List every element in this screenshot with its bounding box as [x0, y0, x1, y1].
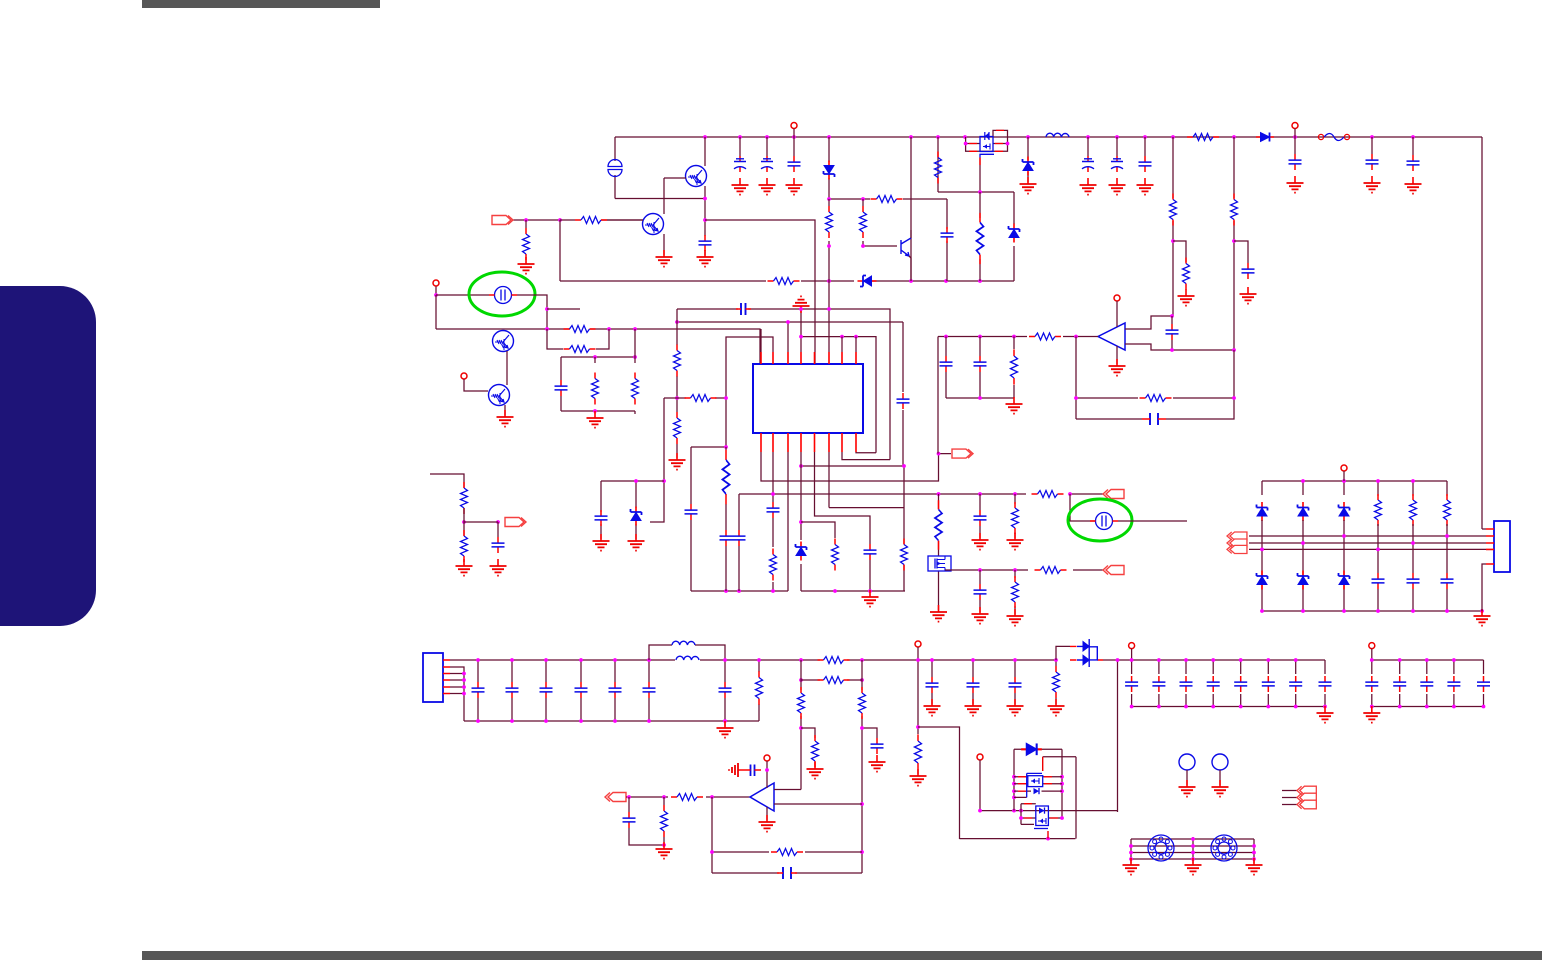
- capacitor C33: [540, 682, 553, 698]
- wire bank1 col 5: [1240, 660, 1242, 707]
- junctions rail y591 right: [833, 589, 872, 593]
- capacitor C58 series: [751, 765, 755, 777]
- wire D2 leads: [1027, 137, 1029, 182]
- thermal fuse F2: [489, 287, 517, 304]
- resistor R20: [901, 539, 908, 571]
- wire opto2 link: [1070, 494, 1096, 521]
- ground R43: [910, 769, 927, 786]
- ground C2: [732, 178, 749, 195]
- junctions U2 fb: [1074, 396, 1236, 400]
- wire pin5 down rail y516: [815, 452, 871, 591]
- ground C11: [1405, 177, 1422, 194]
- capacitor C31: [472, 682, 485, 698]
- ground D2: [1020, 177, 1037, 194]
- wire R7 to Q2: [560, 219, 643, 221]
- left navigation tab: [0, 286, 96, 626]
- resistor R35: [1410, 494, 1417, 526]
- wire Q4 collector emitter: [909, 230, 911, 281]
- wire cluster rail y811: [980, 810, 1118, 812]
- wire rail y336: [801, 337, 876, 453]
- wire C10 top: [1371, 137, 1373, 154]
- mosfet Q7 box: [928, 556, 951, 571]
- diode Q8 body: [1034, 788, 1040, 794]
- wire P3 drop: [435, 287, 437, 296]
- resistor R11: [860, 206, 867, 238]
- resistor R23: [723, 450, 730, 504]
- wire rail y447: [691, 447, 726, 591]
- wire R-snub drop: [937, 137, 939, 192]
- wire col x932: [931, 660, 933, 704]
- resistor R4: [1187, 134, 1219, 141]
- zener D10 top: [1339, 502, 1350, 521]
- power node P1: [791, 123, 797, 129]
- wire x436 drop: [435, 295, 437, 329]
- ground jack mid: [1185, 858, 1202, 875]
- mosfet Q3 gate lead: [980, 154, 994, 157]
- junction cluster y839: [1046, 837, 1050, 841]
- junctions on VCC bus: [703, 135, 1415, 139]
- capacitor C6: [1111, 156, 1123, 172]
- ground Q7: [930, 605, 947, 622]
- connector J5 arrow: [1103, 566, 1124, 575]
- ground R30: [1007, 609, 1024, 626]
- ground RC block: [587, 411, 604, 428]
- resistor R14: [564, 346, 596, 353]
- wire cap col x581: [580, 660, 582, 721]
- ground C7: [1137, 178, 1154, 195]
- wire U3 fb cap rail: [712, 872, 862, 874]
- transistor Q2: [643, 214, 664, 235]
- transistor Q6: [489, 385, 510, 406]
- jack socket K2: [1211, 835, 1237, 861]
- wire U2 ground: [1116, 346, 1118, 364]
- wire pin3 down: [787, 452, 789, 591]
- zener D12 bottom: [1298, 571, 1309, 590]
- ground U2: [1109, 359, 1126, 376]
- wire branch to C8: [1234, 241, 1248, 263]
- power node P11: [977, 754, 983, 760]
- wire bus left drop: [614, 137, 616, 199]
- wire U2 cap legs: [946, 337, 1014, 399]
- junctions rail y199: [827, 197, 865, 201]
- wire Q1 emitter to node: [704, 186, 706, 255]
- capacitor C41: [1009, 677, 1022, 693]
- junctions rail y570: [978, 568, 1017, 572]
- wire x918 branch: [918, 727, 960, 839]
- capacitor C14 series: [741, 303, 746, 315]
- resistor R42: [859, 687, 866, 719]
- junctions rail y721 caps: [476, 719, 651, 723]
- wire C5 top: [1087, 137, 1089, 156]
- connector CN1 pins: [443, 660, 450, 694]
- power node P8: [1129, 643, 1135, 649]
- junctions fet1 pins: [1012, 775, 1064, 799]
- resistor R34: [1375, 494, 1382, 526]
- lamp LED1: [1179, 754, 1195, 770]
- wire C57 legs: [629, 797, 664, 845]
- wire LED2 lead: [1219, 770, 1221, 785]
- wire Q1 collector: [704, 137, 706, 166]
- connector CN2 3pin: [1227, 532, 1247, 554]
- zener D9 top: [1298, 502, 1309, 521]
- resistor R16: [632, 373, 639, 405]
- wire R6 top: [525, 220, 527, 228]
- connector J2 arrow: [952, 449, 973, 458]
- resistor R24: [1032, 491, 1064, 498]
- capacitor C59 series: [783, 867, 791, 879]
- wire gate rail: [938, 191, 1014, 193]
- capacitor C35: [609, 682, 622, 698]
- resistor R9: [871, 196, 903, 203]
- wire C4 top: [793, 137, 795, 156]
- wire pin4 up: [800, 309, 802, 352]
- wire jack lines: [1131, 839, 1254, 859]
- capacitor C57: [623, 812, 636, 828]
- wire U2 power: [1116, 301, 1118, 327]
- capacitor C22: [974, 510, 987, 526]
- wire rail y466: [801, 465, 904, 467]
- wire Q2 emitter: [663, 234, 665, 255]
- wire x739 chain: [738, 494, 740, 591]
- inductor L1: [1046, 133, 1069, 137]
- zener D7: [631, 507, 642, 526]
- ground C22: [972, 533, 989, 550]
- capacitor C16: [864, 544, 877, 560]
- capacitor C5: [1082, 156, 1094, 172]
- wire x1015 chain2: [1014, 570, 1016, 614]
- suppressor D14: [1070, 646, 1103, 660]
- wire TVS bypass: [1056, 646, 1070, 660]
- wire phase line 2: [1249, 542, 1486, 544]
- wire x725 col: [724, 660, 726, 726]
- capacitor C52: [1420, 676, 1433, 692]
- wire cluster right vert: [1075, 757, 1077, 839]
- wire branch to R3: [1173, 241, 1186, 262]
- resistor R12: [977, 213, 984, 264]
- capacitor C50: [1365, 676, 1378, 692]
- wire J4 links: [464, 508, 498, 537]
- power node P2: [1292, 123, 1298, 129]
- capacitor C34: [575, 682, 588, 698]
- wire pin7 down rail y459: [842, 452, 890, 460]
- capacitor C54: [1477, 676, 1490, 692]
- wire Q2 base: [601, 219, 643, 221]
- resistor R44: [1053, 666, 1060, 698]
- power node P4: [461, 373, 467, 379]
- junction y466: [799, 464, 906, 468]
- wire P8 stub: [1131, 649, 1133, 660]
- junctions x725: [723, 658, 727, 723]
- ground up U1: [793, 296, 810, 313]
- connector J6 arrow: [605, 793, 626, 802]
- resistor R8: [768, 278, 800, 285]
- wire rail y591 right: [801, 590, 905, 592]
- ground C5: [1080, 178, 1097, 195]
- wire zener node rail y199: [829, 198, 947, 200]
- junction U3 gnd node: [662, 843, 666, 847]
- wire feedback rail y281: [560, 280, 1014, 282]
- wire stub y309: [547, 308, 580, 310]
- mosfet Q8 pin rows: [1014, 777, 1062, 798]
- ground C39: [924, 699, 941, 716]
- wire Q3 gate red: [979, 158, 981, 166]
- capacitor C51: [1393, 676, 1406, 692]
- wire primary drop x911: [910, 137, 912, 281]
- resistor R36: [1444, 494, 1451, 526]
- ground LED2: [1212, 780, 1229, 797]
- junction Q1 emitter nodes: [703, 197, 707, 222]
- resistor R17: [674, 345, 681, 377]
- wire CN1 pin bundle: [450, 667, 464, 721]
- wire column x1262: [1261, 520, 1263, 611]
- wire column x1344: [1343, 520, 1345, 611]
- capacitor C60: [685, 504, 698, 520]
- resistor R13: [564, 326, 596, 333]
- capacitor C21: [595, 510, 608, 526]
- resistor R19: [685, 395, 717, 402]
- wire column x1378: [1377, 524, 1379, 611]
- junction x664: [662, 479, 666, 483]
- wire bridge top rail: [1262, 481, 1447, 496]
- wire x677 chain: [676, 309, 678, 458]
- resistor R2: [1170, 194, 1177, 226]
- junctions bridge bottom: [1260, 609, 1484, 613]
- capacitor C1: [699, 235, 712, 251]
- capacitor C24: [940, 356, 953, 372]
- power node P5: [1114, 295, 1120, 301]
- capacitor C30: [1441, 573, 1454, 589]
- wire P2 stub: [1294, 129, 1296, 138]
- capacitor C18: [720, 530, 733, 546]
- bottom footer bar: [142, 951, 1542, 960]
- junction x677: [675, 396, 679, 400]
- ground x725: [717, 721, 734, 738]
- wire rail y322: [677, 321, 903, 323]
- capacitor C37: [719, 682, 732, 698]
- junction U3 fb: [710, 850, 714, 854]
- wire rail y398 L: [664, 397, 726, 399]
- resistor R26: [461, 530, 468, 562]
- jack socket K1: [1148, 835, 1174, 861]
- junction x1056: [1054, 658, 1058, 662]
- wire x1117 drop: [1117, 660, 1119, 812]
- wire cap col x649: [648, 660, 650, 721]
- wire node rail y220: [705, 220, 815, 364]
- wire rail y507: [829, 507, 904, 509]
- wire CN3 pin5 to gnd: [1482, 564, 1486, 611]
- mosfet Q7: [935, 557, 945, 571]
- ground bank2: [1363, 706, 1380, 723]
- capacitor C42: [1125, 676, 1138, 692]
- capacitor C17: [767, 502, 780, 518]
- capacitor C12: [941, 227, 954, 243]
- ground C40: [965, 699, 982, 716]
- wire CN4 stubs: [1282, 791, 1297, 805]
- wire rail y336 U2: [938, 336, 1076, 338]
- wire I1 emitter rail: [615, 198, 705, 200]
- wire bank1 col 7: [1295, 660, 1297, 707]
- junctions fet2 pins: [1019, 816, 1064, 820]
- resistor R47: [771, 849, 803, 856]
- capacitor C49: [1319, 676, 1332, 692]
- capacitor C27 series: [1150, 413, 1158, 425]
- connector J3 arrow: [1103, 490, 1124, 499]
- wire x938 chain: [938, 494, 940, 610]
- wire R41 branch: [801, 728, 815, 738]
- junction rail y398 U2: [978, 396, 982, 400]
- wire snub cap drop: [946, 199, 948, 281]
- wire bank1 col 3: [1185, 660, 1187, 707]
- wire cap col x546: [545, 660, 547, 721]
- zener D4: [858, 276, 877, 287]
- wire pin8 stub: [855, 337, 857, 352]
- wire R10 R11 links: [829, 199, 863, 352]
- ground R3: [1178, 289, 1195, 306]
- wire U3 fb res rail: [712, 851, 862, 853]
- resistor R38: [818, 657, 850, 664]
- wire U2 in+ path: [1125, 316, 1172, 329]
- mosfet Q8: [1027, 773, 1043, 797]
- capacitor C32: [506, 682, 519, 698]
- transistor Q4: [901, 238, 911, 256]
- wire U3 out: [774, 803, 862, 805]
- wire Q5 emitter: [506, 351, 508, 385]
- resistor R37: [756, 671, 763, 705]
- wire R13R14 sides: [547, 329, 609, 349]
- lamp LED2: [1212, 754, 1228, 770]
- capacitor C36: [643, 682, 656, 698]
- wire block verticals: [561, 329, 635, 414]
- resistor R10: [826, 206, 833, 238]
- wire rail y309: [677, 309, 890, 460]
- wire bank2 bottom rail: [1372, 706, 1484, 708]
- junction divider A: [1171, 239, 1175, 243]
- ground C4: [786, 178, 803, 195]
- ground C3: [759, 178, 776, 195]
- wire U2 out rail: [1076, 336, 1098, 338]
- wire pin7 stub: [841, 337, 843, 352]
- ground LED1: [1179, 780, 1196, 797]
- resistor R29: [1035, 567, 1067, 574]
- junctions CN1 bundle: [462, 672, 466, 696]
- ground R6: [518, 257, 535, 274]
- capacitor C48: [1289, 676, 1302, 692]
- junction U2 in+: [1170, 314, 1174, 318]
- capacitor C23: [974, 584, 987, 600]
- resistor R3: [1183, 258, 1190, 290]
- ground left C58: [729, 763, 744, 777]
- wire Q1 base: [664, 177, 686, 179]
- wire stub y474: [430, 474, 464, 488]
- wire cluster right vert2: [1061, 749, 1063, 818]
- op-amp U3: [750, 783, 774, 811]
- resistor R25: [461, 482, 468, 514]
- ground C21: [593, 534, 610, 551]
- current source I1: [608, 160, 622, 177]
- ground jack right: [1246, 858, 1263, 875]
- wire opto2 out: [1118, 520, 1187, 522]
- junction x1117: [1116, 658, 1120, 662]
- capacitor C26: [1166, 324, 1179, 340]
- mosfet pair Q3 wiring: [966, 130, 1008, 151]
- junctions rail y494: [771, 492, 1072, 496]
- wire D15 row: [1014, 748, 1062, 750]
- resistor R7: [575, 217, 607, 224]
- wire U3 power: [766, 761, 768, 788]
- resistor R33: [1140, 395, 1172, 402]
- ground R26: [456, 559, 473, 576]
- capacitor C47: [1262, 676, 1275, 692]
- junction stub node: [545, 307, 549, 311]
- wire bank2 col 1: [1371, 660, 1373, 707]
- highlight ellipse E2: [1068, 499, 1132, 541]
- wire cap col x615: [614, 660, 616, 721]
- wire rail y481 L: [601, 481, 664, 539]
- wire cluster rail y839: [960, 838, 1076, 840]
- resistor R27: [935, 500, 942, 550]
- thermal fuse F3: [1090, 513, 1118, 530]
- junctions rail y591 left: [724, 589, 775, 593]
- junction arrow node: [937, 452, 941, 456]
- zener D5: [1009, 224, 1020, 243]
- mosfet Q10 pin rows: [1021, 804, 1062, 825]
- resistor R43: [915, 734, 922, 769]
- wire U2 in- path: [1125, 344, 1234, 350]
- ground C20: [490, 559, 507, 576]
- junction J4 node: [462, 520, 500, 524]
- capacitor C45: [1207, 676, 1220, 692]
- ground below C1: [697, 250, 714, 267]
- wire jack right vert: [1253, 839, 1255, 863]
- junction x918: [916, 658, 920, 729]
- wire P1 stub: [793, 129, 795, 138]
- ground jack left: [1123, 858, 1140, 875]
- junction x759: [757, 658, 761, 662]
- capacitor C28: [1372, 573, 1385, 589]
- wire bank2 col 5: [1483, 660, 1485, 707]
- capacitor C39: [926, 677, 939, 693]
- wire x938 up: [937, 337, 939, 454]
- zener D6: [796, 542, 807, 561]
- wire block bottom rail: [561, 410, 635, 412]
- wire pin6 down: [828, 452, 830, 508]
- wire phase line 1: [1249, 535, 1486, 537]
- junction J1 node: [524, 218, 562, 222]
- wire block top rail: [561, 356, 635, 358]
- junction zener node: [799, 520, 803, 524]
- wire rail y721: [464, 720, 759, 722]
- capacitor C25: [974, 356, 987, 372]
- highlight ellipse E1: [469, 272, 535, 316]
- wire C3 top: [766, 137, 768, 156]
- resistor R31: [1029, 333, 1061, 340]
- wire bank2 col 4: [1453, 660, 1455, 707]
- wire pin8 down rail y452: [856, 451, 876, 454]
- IC U1 top pin leads: [761, 352, 856, 364]
- capacitor C46: [1234, 676, 1247, 692]
- wire rail y398 U2: [946, 397, 1014, 399]
- junctions rail y660 mid: [930, 658, 1017, 662]
- IC U1 bottom pin leads: [761, 433, 856, 452]
- junction divider B: [1232, 239, 1236, 243]
- zener D11 bottom: [1257, 571, 1268, 590]
- wire column x1447: [1446, 524, 1448, 611]
- capacitor C29: [1407, 573, 1420, 589]
- power node P7: [915, 641, 921, 647]
- resistor R45: [671, 794, 703, 801]
- capacitor C43: [1152, 676, 1165, 692]
- connector J1 arrow: [492, 216, 513, 225]
